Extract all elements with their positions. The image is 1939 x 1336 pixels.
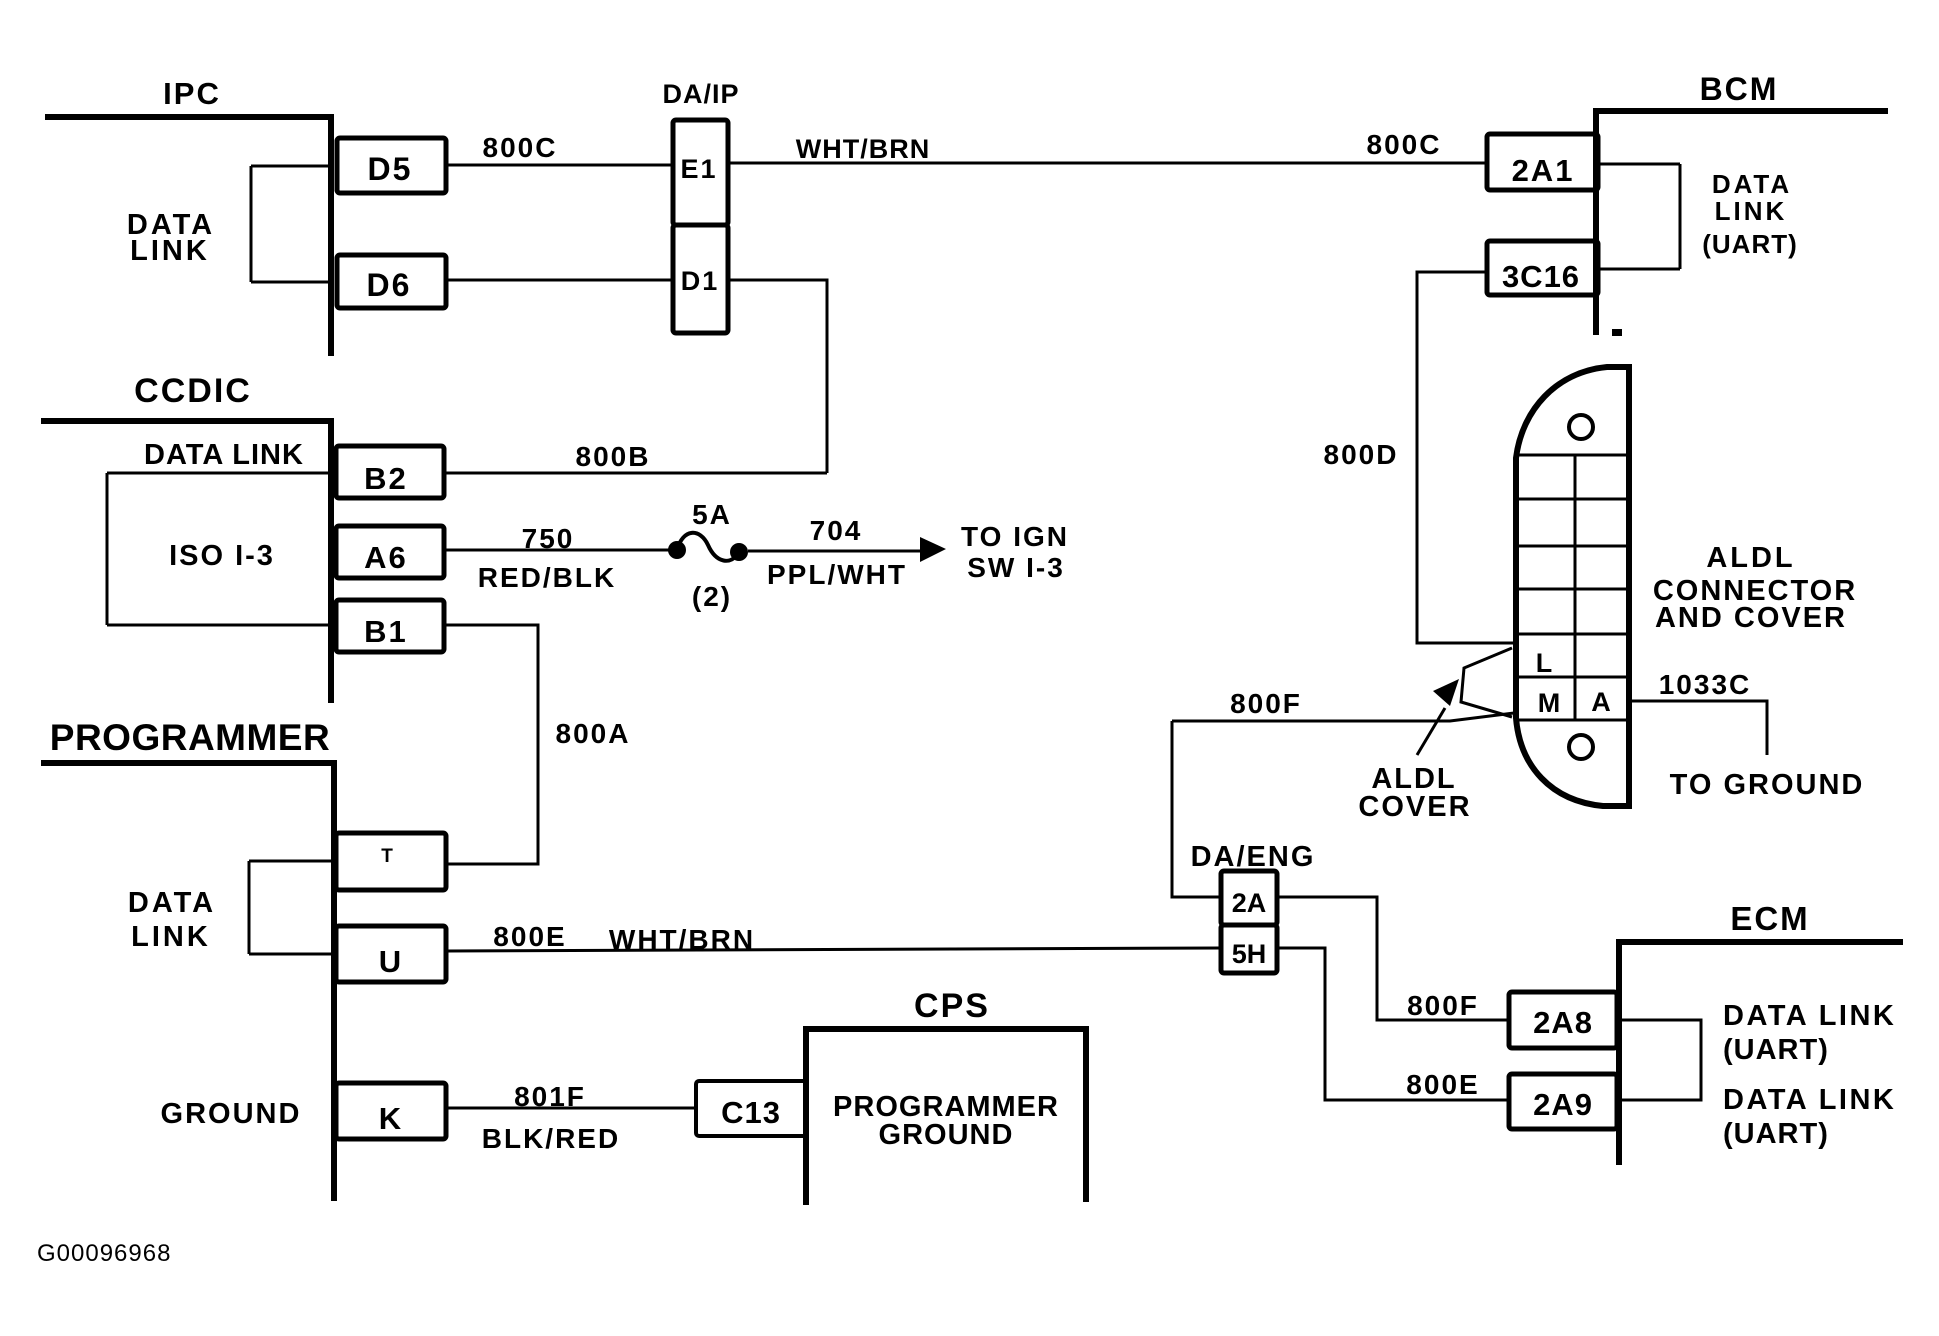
svg-text:801F: 801F: [514, 1081, 586, 1112]
svg-text:T: T: [381, 846, 393, 867]
svg-text:D5: D5: [368, 151, 413, 187]
svg-text:(UART): (UART): [1723, 1118, 1829, 1150]
svg-text:CPS: CPS: [914, 987, 990, 1025]
svg-text:3C16: 3C16: [1502, 259, 1580, 294]
svg-text:2A: 2A: [1232, 888, 1267, 918]
svg-text:(UART): (UART): [1702, 229, 1798, 259]
svg-text:E1: E1: [680, 154, 717, 184]
svg-text:704: 704: [810, 515, 863, 546]
svg-text:D6: D6: [367, 267, 412, 303]
svg-text:DATA LINK: DATA LINK: [1723, 1000, 1896, 1032]
svg-text:SW I-3: SW I-3: [967, 552, 1065, 583]
svg-text:ECM: ECM: [1730, 900, 1809, 937]
svg-text:DA/ENG: DA/ENG: [1191, 841, 1316, 873]
svg-text:750: 750: [522, 523, 575, 554]
svg-text:A6: A6: [364, 540, 408, 575]
svg-text:AND COVER: AND COVER: [1655, 602, 1847, 634]
svg-text:COVER: COVER: [1358, 791, 1471, 823]
svg-text:ISO I-3: ISO I-3: [169, 540, 275, 572]
svg-text:M: M: [1538, 688, 1561, 718]
svg-text:800E: 800E: [493, 921, 566, 952]
svg-text:2A8: 2A8: [1533, 1005, 1593, 1040]
svg-text:LINK: LINK: [1715, 196, 1788, 226]
svg-text:B1: B1: [364, 614, 408, 649]
svg-text:TO GROUND: TO GROUND: [1670, 769, 1865, 801]
svg-text:BCM: BCM: [1700, 71, 1779, 107]
svg-text:DATA: DATA: [1712, 169, 1792, 199]
svg-text:800C: 800C: [1367, 129, 1442, 160]
svg-text:1033C: 1033C: [1659, 669, 1752, 700]
svg-text:GROUND: GROUND: [161, 1098, 302, 1130]
svg-text:800E: 800E: [1406, 1069, 1479, 1100]
svg-text:WHT/BRN: WHT/BRN: [796, 134, 930, 164]
svg-text:DATA LINK: DATA LINK: [1723, 1084, 1896, 1116]
svg-text:PROGRAMMER: PROGRAMMER: [50, 717, 330, 758]
svg-text:800C: 800C: [483, 132, 558, 163]
svg-text:DATA: DATA: [128, 887, 216, 919]
svg-text:GROUND: GROUND: [879, 1119, 1014, 1151]
svg-text:IPC: IPC: [163, 76, 221, 111]
svg-text:800A: 800A: [556, 718, 631, 749]
svg-text:C13: C13: [721, 1095, 781, 1130]
svg-text:800F: 800F: [1230, 688, 1302, 719]
svg-text:A: A: [1591, 687, 1611, 717]
svg-text:800F: 800F: [1407, 990, 1479, 1021]
svg-text:CCDIC: CCDIC: [134, 372, 252, 410]
svg-text:RED/BLK: RED/BLK: [478, 562, 616, 593]
svg-text:LINK: LINK: [131, 921, 211, 953]
svg-text:TO IGN: TO IGN: [961, 521, 1069, 552]
svg-text:D1: D1: [681, 266, 720, 296]
svg-text:2A1: 2A1: [1512, 153, 1575, 188]
svg-text:ALDL: ALDL: [1706, 542, 1795, 574]
svg-text:BLK/RED: BLK/RED: [482, 1123, 620, 1154]
svg-text:2A9: 2A9: [1533, 1087, 1593, 1122]
svg-text:800B: 800B: [576, 441, 651, 472]
svg-text:L: L: [1536, 648, 1553, 678]
svg-text:5A: 5A: [692, 499, 732, 530]
svg-text:PPL/WHT: PPL/WHT: [767, 559, 907, 590]
svg-text:800D: 800D: [1324, 439, 1399, 470]
svg-text:DA/IP: DA/IP: [662, 79, 739, 109]
svg-text:G00096968: G00096968: [37, 1240, 171, 1267]
svg-text:DATA LINK: DATA LINK: [144, 439, 304, 471]
svg-text:(2): (2): [692, 581, 732, 612]
svg-text:K: K: [379, 1101, 402, 1136]
svg-text:WHT/BRN: WHT/BRN: [609, 924, 755, 955]
svg-text:LINK: LINK: [130, 235, 210, 267]
svg-text:U: U: [379, 944, 401, 979]
svg-text:B2: B2: [364, 461, 408, 496]
svg-text:5H: 5H: [1232, 939, 1267, 969]
svg-text:(UART): (UART): [1723, 1034, 1829, 1066]
